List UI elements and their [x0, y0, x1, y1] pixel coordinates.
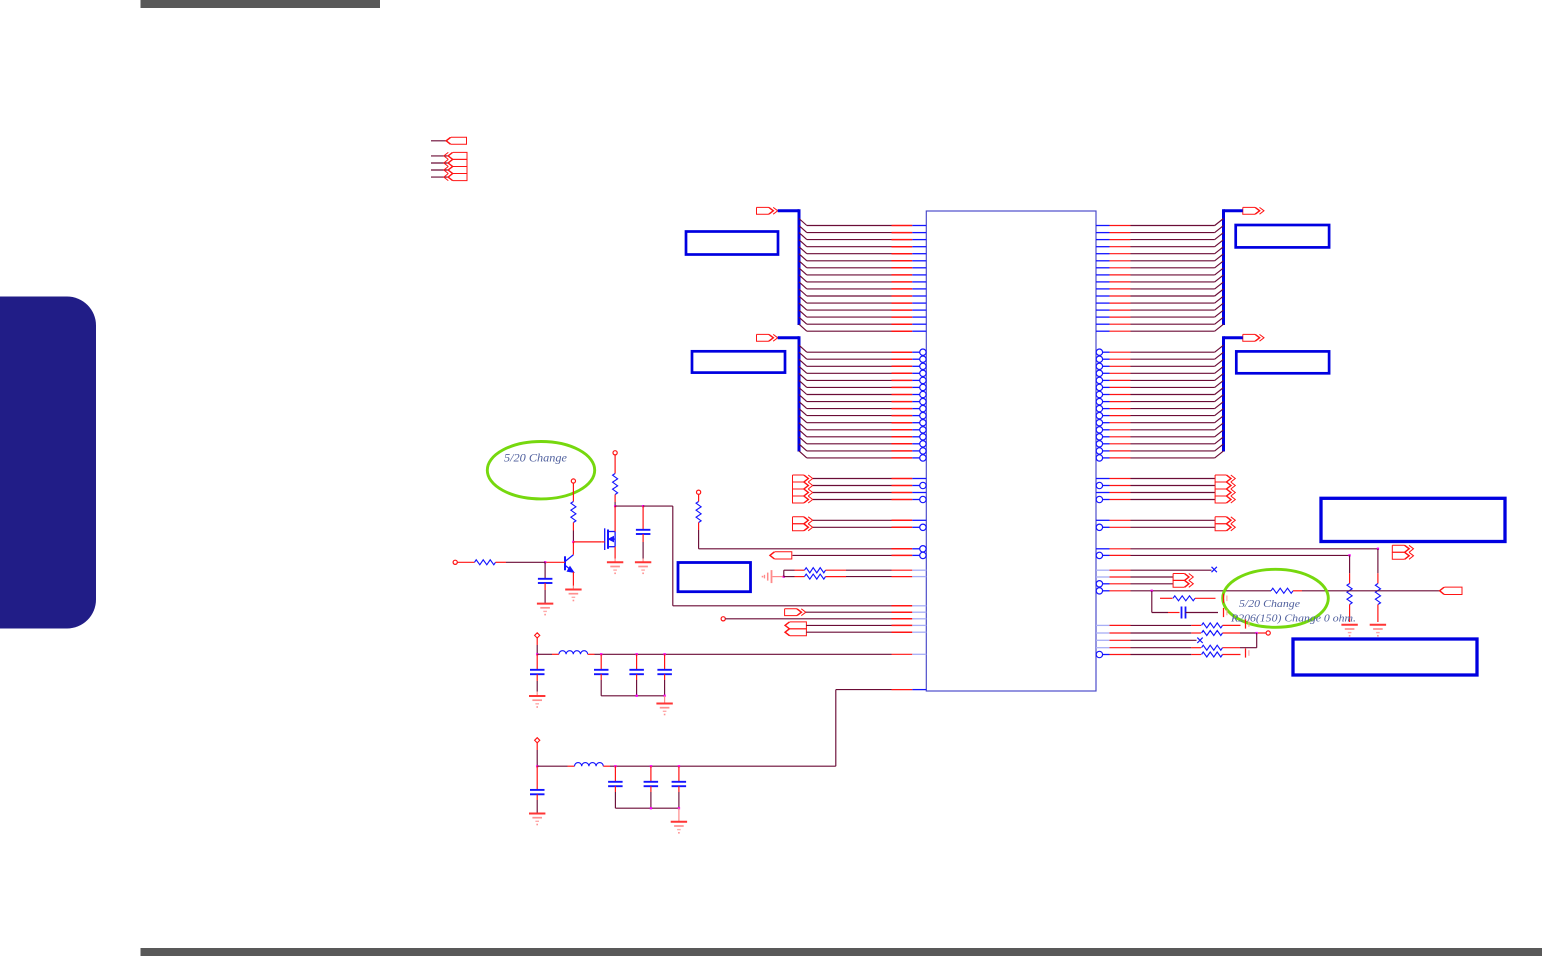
port stack SM_DATA flags x4: [431, 155, 449, 157]
junction: [783, 576, 785, 578]
wire WE upper: [783, 570, 785, 576]
wire MB12: [1215, 303, 1224, 310]
wire CAS: [793, 554, 892, 556]
label box R1: [1236, 225, 1329, 247]
port CLK flag: [785, 609, 802, 616]
wire MA12: [799, 303, 807, 310]
ground C203: [529, 695, 545, 697]
svg-text:5/20 Change: 5/20 Change: [1239, 598, 1300, 610]
bottom border bar: [141, 948, 1542, 956]
capacitor C211: [1181, 607, 1183, 619]
pin VDDQ diamond: [535, 633, 540, 638]
wire MA2: [799, 233, 807, 240]
bus MDQ horizontal: [1224, 336, 1243, 339]
wire MA7: [799, 268, 807, 275]
ground C207: [529, 813, 545, 815]
pin input open: [453, 560, 457, 564]
wire MA10: [799, 289, 807, 296]
resistor R208 term: [1377, 549, 1379, 574]
svg-text:5/20 Change: 5/20 Change: [504, 451, 568, 465]
resistor R203: [475, 560, 496, 565]
wire MDQ12: [1215, 430, 1224, 437]
pin VDD open: [613, 451, 617, 455]
capacitor C205: [636, 654, 638, 669]
wire MD15: [799, 451, 807, 458]
wire riser to chip: [835, 690, 837, 767]
wire MD4: [799, 373, 807, 380]
bus MB vertical: [1222, 209, 1225, 325]
wire MD6: [799, 388, 807, 395]
wire filter2 node: [610, 765, 836, 767]
wire MD5: [799, 380, 807, 387]
wire SDCLK1: [1096, 552, 1102, 558]
wire down: [536, 743, 538, 750]
junction: [600, 653, 602, 655]
wire MA0: [799, 219, 807, 226]
wire MD3: [799, 366, 807, 373]
wire DQS1 with R211: [1096, 632, 1110, 634]
capacitor C206: [664, 654, 666, 669]
wire MB6: [1215, 261, 1224, 268]
label box L3: [678, 563, 751, 592]
top title bar: [141, 0, 381, 8]
capacitor C203: [536, 654, 538, 669]
junction: [1377, 548, 1379, 550]
junction: [536, 653, 538, 655]
port stack DQM flags x2: [785, 622, 806, 629]
pin VTT diamond: [535, 738, 540, 743]
wire MD1: [799, 352, 807, 359]
resistor R206: [1271, 588, 1293, 593]
ground LC1: [664, 696, 666, 704]
wire MA3: [799, 240, 807, 247]
wire NC2 with X: [1096, 639, 1110, 641]
ground C202: [635, 561, 651, 563]
wire MD10: [799, 416, 807, 423]
wire cap bottom rail: [601, 695, 664, 697]
wire MD14: [799, 444, 807, 451]
label box R3: [1321, 498, 1505, 541]
bus MD vertical: [798, 336, 801, 451]
wire MB15: [1215, 324, 1224, 331]
port stack CKE0 flags x4 right: [1096, 478, 1110, 480]
bus MD horizontal: [778, 336, 799, 339]
bus MB horizontal: [1224, 209, 1243, 212]
terminator mark: [1245, 619, 1247, 628]
bus MD source flag: [757, 334, 774, 341]
junction: [544, 561, 546, 563]
open pin stub: [721, 617, 725, 621]
pin VCC open: [571, 479, 575, 483]
port stack CS flags x2: [793, 517, 809, 524]
wire NC with X: [1096, 569, 1110, 571]
bus MDQ destination flag: [1243, 334, 1260, 341]
wire MDQ3: [1215, 366, 1224, 373]
wire MD9: [799, 409, 807, 416]
ground R207: [1341, 624, 1357, 626]
wire Q2 drain: [614, 506, 616, 531]
wire MA5: [799, 254, 807, 261]
wire MDQ11: [1215, 423, 1224, 430]
wire MD2: [799, 359, 807, 366]
series RC on CKE net - resistor R209: [1160, 597, 1173, 599]
ground Q2: [607, 561, 623, 563]
wire MA8: [799, 275, 807, 282]
wire MB14: [1215, 317, 1224, 324]
port stack CKE flags x4: [793, 475, 809, 482]
label box R2: [1236, 351, 1329, 373]
wire MB13: [1215, 310, 1224, 317]
bus MA source flag: [757, 207, 774, 214]
junction: [678, 807, 680, 809]
terminator mark: [1245, 648, 1247, 657]
port stack SDCLK flags x2: [1392, 545, 1409, 552]
wire MB3: [1215, 240, 1224, 247]
bus MDQ vertical: [1222, 336, 1225, 451]
wire RAS: [698, 530, 700, 549]
junction: [642, 505, 644, 507]
resistor R201 pull-up: [697, 490, 701, 494]
wire MDQ7: [1215, 395, 1224, 402]
wire MDQ14: [1215, 444, 1224, 451]
port SM_CLK single flag: [431, 140, 448, 142]
ground R208: [1370, 624, 1386, 626]
wire MDQ2: [1215, 359, 1224, 366]
capacitor C204: [600, 654, 602, 669]
capacitor C208: [614, 766, 616, 781]
wire MDQ9: [1215, 409, 1224, 416]
wire cap branch: [1151, 591, 1153, 613]
terminator mark: [1223, 594, 1225, 603]
wire MA13: [799, 310, 807, 317]
label box L1: [686, 232, 778, 255]
junction: [636, 653, 638, 655]
junction: [664, 653, 666, 655]
wire MD11: [799, 423, 807, 430]
junction: [664, 695, 666, 697]
wire MB2: [1215, 233, 1224, 240]
junction: [536, 765, 538, 767]
capacitor C202: [642, 506, 644, 529]
wire MB1: [1215, 226, 1224, 233]
wire MB8: [1215, 275, 1224, 282]
wire CLKEN: [725, 618, 891, 620]
green revision ellipse 2: [1223, 569, 1329, 627]
inductor L2: [575, 763, 604, 767]
resistor R207 term: [1349, 555, 1351, 573]
ground LC2: [678, 808, 680, 821]
resistor R204: [614, 455, 616, 474]
wire MD0: [799, 345, 807, 352]
wire MA4: [799, 247, 807, 254]
wire node VREF top: [615, 505, 643, 507]
junction: [678, 765, 680, 767]
wire MDQ5: [1215, 380, 1224, 387]
wire DQS2 with R212: [1096, 647, 1110, 649]
green revision ellipse 1: [487, 442, 594, 499]
wire MDQ13: [1215, 437, 1224, 444]
wire gate: [573, 541, 601, 543]
junction: [1151, 590, 1153, 592]
wire MD7: [799, 395, 807, 402]
wire MA1: [799, 226, 807, 233]
wire MB11: [1215, 296, 1224, 303]
wire DQS3 with R213: [1096, 651, 1102, 657]
junction: [572, 541, 574, 543]
transistor Q1 NPN: [564, 556, 566, 570]
junction: [636, 695, 638, 697]
junction: [614, 505, 616, 507]
capacitor C209: [650, 766, 652, 781]
junction: [614, 765, 616, 767]
label box L2: [692, 351, 785, 372]
bus MA horizontal: [778, 209, 799, 212]
wire to inductor: [537, 653, 552, 655]
port stack CKE1 flags x2: [1096, 576, 1110, 578]
capacitor C201: [544, 562, 546, 578]
junction: [1256, 632, 1258, 634]
wire filter node: [595, 653, 892, 655]
wire MDQ1: [1215, 352, 1224, 359]
wire DQS0 with R210: [1096, 624, 1110, 626]
wire MA14: [799, 317, 807, 324]
wire MB5: [1215, 254, 1224, 261]
bus MA vertical: [798, 209, 801, 325]
wire MD8: [799, 402, 807, 409]
wire SDCLK0: [1096, 548, 1110, 550]
wire cap2 bottom rail: [615, 807, 679, 809]
wire Q1 collector: [572, 542, 574, 555]
wire MB4: [1215, 247, 1224, 254]
wire MD13: [799, 437, 807, 444]
wire base: [545, 561, 565, 563]
wire SDCKE through R206: [1096, 588, 1102, 594]
wire input: [457, 561, 474, 563]
ground GND side: [771, 570, 773, 583]
wire VREF down: [672, 506, 674, 606]
IC U2 DDR memory controller body: [926, 211, 1096, 691]
wire to Q1 collector: [572, 531, 574, 542]
wire Q1 emitter: [572, 572, 574, 586]
mosfet Q2: [604, 528, 606, 550]
wire to inductor: [537, 765, 567, 767]
wire MB0: [1215, 219, 1224, 226]
wire MA6: [799, 261, 807, 268]
wire MDQ4: [1215, 373, 1224, 380]
wire MB10: [1215, 289, 1224, 296]
wire MD12: [799, 430, 807, 437]
junction: [650, 765, 652, 767]
label box R4: [1293, 639, 1477, 675]
ground Q1: [565, 589, 581, 591]
junction: [1348, 554, 1350, 556]
terminator mark: [1223, 608, 1225, 617]
wire MDQ15: [1215, 451, 1224, 458]
wire Q2 source to gnd: [614, 547, 616, 559]
ground C201: [537, 603, 553, 605]
wire MA15: [799, 324, 807, 331]
wire MDQ6: [1215, 388, 1224, 395]
junction: [650, 807, 652, 809]
wire MDQ0: [1215, 345, 1224, 352]
port SDCKE flag: [1440, 587, 1462, 594]
left navigation tab: [0, 297, 96, 629]
wire MDQ10: [1215, 416, 1224, 423]
bus MB destination flag: [1243, 207, 1260, 214]
wire MA9: [799, 282, 807, 289]
wire down: [536, 638, 538, 645]
inductor L1: [559, 651, 588, 655]
wire WE lower: [784, 576, 795, 578]
port CAS flag: [770, 552, 792, 559]
port stack CS0 flags x2 right: [1096, 519, 1110, 521]
wire MA11: [799, 296, 807, 303]
wire MB7: [1215, 268, 1224, 275]
capacitor C210: [678, 766, 680, 781]
open pin: [1258, 632, 1266, 634]
capacitor C207: [536, 766, 538, 790]
wire MB9: [1215, 282, 1224, 289]
wire MDQ8: [1215, 402, 1224, 409]
resistor R202: [572, 483, 574, 501]
wire VREF from divider: [673, 605, 892, 607]
